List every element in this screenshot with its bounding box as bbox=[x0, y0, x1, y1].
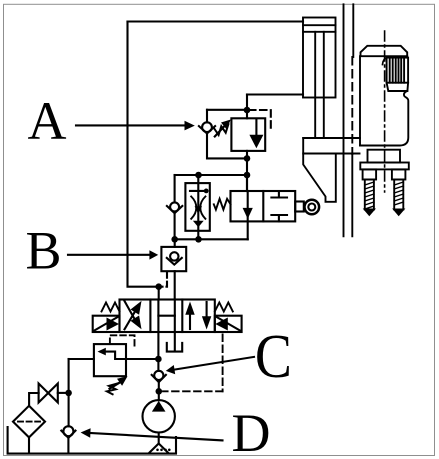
svg-text:D: D bbox=[232, 403, 271, 459]
svg-text:B: B bbox=[26, 221, 62, 281]
svg-text:A: A bbox=[28, 91, 67, 151]
svg-text:C: C bbox=[255, 321, 292, 391]
